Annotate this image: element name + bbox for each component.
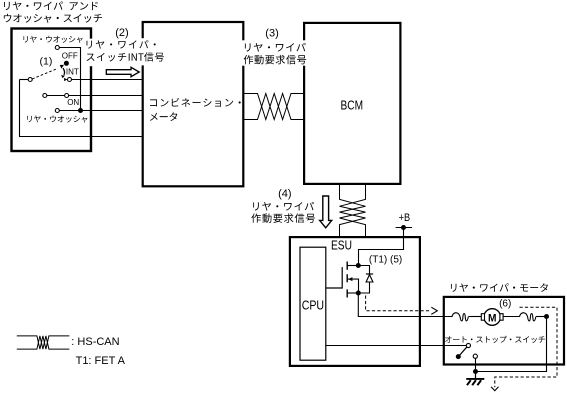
INT output wire to combination meter <box>72 79 143 81</box>
combination meter box <box>143 22 244 186</box>
label: switch title line1 <box>4 1 98 10</box>
svg-text:BCM: BCM <box>341 98 364 112</box>
FET T1 body arrowhead <box>348 277 352 281</box>
BCM box <box>304 23 400 184</box>
body diode triangle <box>366 275 373 282</box>
washer bottom contact terminal <box>55 109 59 113</box>
rotation arc from OFF to INT <box>63 68 64 75</box>
svg-text:+B: +B <box>399 212 411 224</box>
wire CPU to auto-stop switch <box>326 345 467 347</box>
legend twisted pair wire B <box>17 336 70 349</box>
FET T1 body lead with arrow <box>347 279 358 293</box>
label: request signal (3) line1 <box>245 43 306 52</box>
hollow down arrow (4) signal direction <box>320 196 332 228</box>
FET T1 gate lead from CPU <box>326 267 342 288</box>
rotation arc arrowhead <box>61 75 65 78</box>
svg-text:CPU: CPU <box>302 298 324 313</box>
motor return wire down and left to ground node <box>476 317 547 372</box>
ON contact terminal right <box>65 94 69 98</box>
+B junction dot <box>401 225 406 230</box>
ground stem <box>475 372 477 379</box>
washer top contact terminal <box>55 46 59 50</box>
svg-text:: HS-CAN: : HS-CAN <box>71 336 119 348</box>
washer output wire to combination meter <box>59 110 142 112</box>
svg-text:M: M <box>488 312 497 324</box>
FET T1 channel bar segments <box>346 262 348 298</box>
svg-text:OFF: OFF <box>62 51 78 60</box>
dashed feedback wire from source to motor box <box>366 296 431 311</box>
rear wiper motor box <box>444 297 564 365</box>
common return wire (down and right to combination meter) <box>20 80 143 137</box>
ON output wire to combination meter <box>69 95 142 97</box>
HS-CAN twisted pair wire A (meter to BCM) <box>244 94 304 120</box>
svg-text:(4): (4) <box>278 188 291 200</box>
hollow right arrow (2) signal direction <box>106 67 139 76</box>
INT line left corner wire <box>20 79 29 81</box>
wire between ON contacts <box>47 95 65 97</box>
svg-text:ON: ON <box>67 98 79 107</box>
label: rear washer (top contact) <box>23 36 82 43</box>
auto-stop switch contact dot (closed side) <box>456 354 461 359</box>
ON contact terminal left <box>43 94 47 98</box>
label: switch title line2 <box>4 14 102 23</box>
svg-text:T1: FET A: T1: FET A <box>76 355 126 367</box>
motor return junction dot <box>544 314 549 319</box>
wire coil L2 to corner junction <box>536 316 547 318</box>
label: combination meter line2 <box>150 112 177 121</box>
FET T1 drain junction dot <box>356 263 361 268</box>
wire open contact down to ground node <box>475 358 477 371</box>
switch lever (dashed) from pivot toward OFF dot <box>32 69 57 79</box>
auto-stop switch lever <box>460 347 467 355</box>
motor M circle <box>484 309 501 326</box>
ground node junction dot <box>473 369 478 374</box>
+B supply bar <box>396 227 413 229</box>
svg-text:(T1) (5): (T1) (5) <box>369 254 402 265</box>
FET T1 source lead <box>347 292 358 294</box>
svg-text:(2): (2) <box>115 27 128 39</box>
body diode branch wire <box>358 266 369 294</box>
noise suppressor coil L1 (left) <box>452 313 468 321</box>
dashed mechanical/feedback path around motor <box>495 307 557 387</box>
svg-text:INT: INT <box>66 67 79 76</box>
wire from +B down-left to FET drain <box>359 228 404 264</box>
label: request signal (4) line2 <box>251 213 315 222</box>
ground bar <box>466 378 484 380</box>
svg-text:ESU: ESU <box>331 238 352 253</box>
label: request signal (3) line2 <box>244 55 307 64</box>
white gap in switch box right border under (2) label <box>85 39 94 67</box>
ground hatch strokes <box>467 380 481 385</box>
rear wiper/washer switch box SW1 <box>12 29 92 152</box>
wire motor to coil L2 <box>503 316 520 318</box>
label: auto stop switch <box>445 336 545 343</box>
svg-text:(1): (1) <box>40 56 53 68</box>
legend twisted pair wire A <box>17 336 70 349</box>
label: rear wiper motor title <box>451 283 548 292</box>
wire FET source down and right to motor <box>358 293 452 317</box>
svg-text:(3): (3) <box>265 27 278 39</box>
BCM-to-ESU twisted pair wire A <box>340 185 366 237</box>
junction dot on washer line <box>78 108 83 113</box>
wire from washer top contact to junction <box>59 48 80 109</box>
ESU box <box>290 237 420 366</box>
label: rear washer (bottom contact) <box>27 115 87 122</box>
motor left brush <box>481 314 484 321</box>
HS-CAN twisted pair wire B (meter to BCM) <box>244 94 304 120</box>
dashed path arrowhead (down) <box>491 387 498 391</box>
FET T1 source junction dot <box>356 291 361 296</box>
FET T1 drain lead <box>347 265 358 267</box>
OFF position dot <box>64 61 69 66</box>
wire coil L1 to motor <box>468 316 481 318</box>
auto-stop switch open contact terminal <box>473 354 477 358</box>
white gap meter right / BCM left borders under (3) label <box>241 40 307 65</box>
CPU box <box>300 247 326 360</box>
label: INT signal line1 <box>87 40 156 49</box>
auto-stop switch common terminal <box>466 343 470 347</box>
svg-text:(6): (6) <box>499 298 511 309</box>
BCM-to-ESU twisted pair wire B <box>340 185 366 237</box>
label: INT signal line2 <box>87 52 164 61</box>
INT contact terminal <box>68 78 72 82</box>
noise suppressor coil L2 (right) <box>520 313 536 321</box>
label: combination meter line1 <box>150 98 241 107</box>
white gap in meter box left border under (2) label <box>140 38 146 65</box>
dashed feedback arrowhead <box>431 307 437 314</box>
switch pivot terminal <box>28 78 32 82</box>
lever arrowhead at OFF dot <box>60 65 64 69</box>
label: request signal (4) line1 <box>253 202 314 211</box>
moving contact arrow at INT position <box>64 78 67 81</box>
motor right brush <box>500 314 503 321</box>
body diode cathode bar <box>366 273 373 275</box>
